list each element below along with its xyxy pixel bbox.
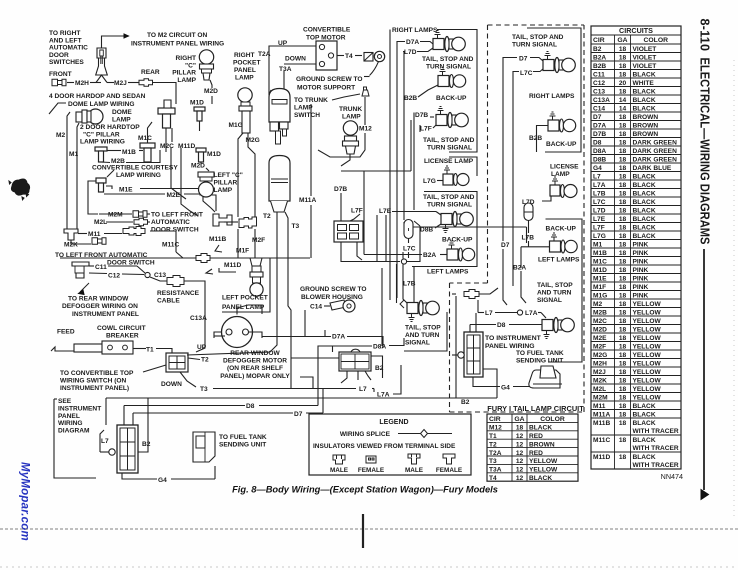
svg-text:18: 18: [619, 156, 627, 163]
svg-text:18: 18: [619, 71, 627, 78]
svg-text:G4: G4: [593, 165, 602, 172]
svg-text:M1C: M1C: [593, 258, 607, 265]
connector M2J: [139, 79, 153, 86]
svg-text:L7A: L7A: [525, 310, 538, 317]
wire M11D horizontal: [60, 257, 196, 259]
svg-text:BLACK: BLACK: [633, 233, 656, 240]
wire D7 fury: [503, 58, 517, 64]
svg-text:YELLOW: YELLOW: [633, 335, 662, 342]
svg-text:LICENSE LAMP: LICENSE LAMP: [424, 158, 474, 165]
svg-text:14: 14: [619, 105, 627, 112]
tail stop turn lamp fury bottom: [542, 320, 553, 331]
svg-text:DOOR SWITCH: DOOR SWITCH: [151, 226, 199, 233]
svg-text:L7C: L7C: [520, 70, 533, 77]
wire L7G: [437, 180, 443, 182]
wire G4: [122, 473, 157, 479]
tail stop turn lamp right 1: [433, 39, 444, 50]
svg-text:B2: B2: [461, 399, 470, 406]
svg-text:L7G: L7G: [423, 178, 436, 185]
wire C14 to motor: [237, 305, 262, 315]
back-up lamp fury 2: [550, 241, 561, 252]
svg-text:M11A: M11A: [299, 197, 316, 204]
svg-text:M11: M11: [593, 403, 606, 410]
svg-text:COLOR: COLOR: [643, 37, 668, 44]
svg-text:T2: T2: [201, 357, 209, 364]
svg-text:D7A: D7A: [593, 122, 606, 129]
svg-text:L7D: L7D: [404, 49, 417, 56]
svg-text:DEFOGGER MOTOR: DEFOGGER MOTOR: [223, 358, 287, 365]
svg-text:T3A: T3A: [279, 66, 292, 73]
svg-text:M2J: M2J: [593, 369, 606, 376]
wire L7A: [393, 365, 401, 394]
svg-text:M2: M2: [593, 301, 602, 308]
bracket fury bottom: [546, 219, 583, 362]
svg-text:M11D: M11D: [224, 262, 241, 269]
connector M11B: [213, 214, 232, 226]
svg-text:INSTRUMENT PANEL WIRING: INSTRUMENT PANEL WIRING: [131, 41, 224, 48]
svg-text:18: 18: [619, 403, 627, 410]
svg-text:WITH TRACER: WITH TRACER: [633, 462, 679, 469]
svg-text:AND TURN: AND TURN: [405, 332, 440, 339]
wire M2H-M2J: [67, 82, 74, 84]
svg-text:L7: L7: [101, 438, 109, 445]
svg-text:18: 18: [619, 224, 627, 231]
ground screw C14: [324, 305, 330, 307]
wire D8 long: [124, 405, 245, 407]
svg-text:D8A: D8A: [593, 148, 606, 155]
svg-text:SENDING UNIT: SENDING UNIT: [219, 442, 266, 449]
wire T1: [133, 348, 146, 350]
svg-text:M2: M2: [56, 132, 65, 139]
wire M2B: [126, 150, 160, 163]
fury inline connector: [464, 290, 479, 299]
wire to M2 circuit arrow: [102, 36, 125, 48]
wire M2C: [165, 128, 167, 152]
svg-text:M1G: M1G: [229, 122, 243, 129]
svg-text:B2B: B2B: [529, 135, 542, 142]
svg-text:BACK-UP: BACK-UP: [546, 141, 577, 148]
terminal L7: [109, 449, 115, 455]
svg-text:PINK: PINK: [633, 258, 649, 265]
svg-text:18: 18: [619, 207, 627, 214]
svg-text:YELLOW: YELLOW: [633, 352, 662, 359]
svg-text:18: 18: [619, 233, 627, 240]
svg-text:TO FUEL TANK: TO FUEL TANK: [516, 350, 564, 357]
wire B2B: [389, 30, 391, 301]
bottom rule: [0, 528, 738, 530]
svg-text:LAMP WIRING: LAMP WIRING: [116, 172, 161, 179]
svg-text:DARK BLUE: DARK BLUE: [633, 165, 672, 172]
svg-text:BACK-UP: BACK-UP: [442, 237, 473, 244]
svg-text:D7: D7: [501, 242, 510, 249]
svg-text:POCKET: POCKET: [233, 60, 260, 67]
wire M1G M2G: [238, 133, 243, 217]
wiring splice symbol: [398, 433, 452, 435]
wire trunk to left: [214, 335, 225, 337]
svg-text:B2B: B2B: [593, 63, 606, 70]
wire M1 vertical: [77, 123, 79, 229]
svg-text:LAMP: LAMP: [112, 117, 131, 124]
capsule L7D fury: [524, 203, 533, 221]
wire trunk b2: [371, 356, 383, 378]
svg-text:M1D: M1D: [190, 100, 204, 107]
svg-text:18: 18: [619, 258, 627, 265]
svg-text:TURN SIGNAL: TURN SIGNAL: [427, 145, 472, 152]
svg-text:BLACK: BLACK: [633, 97, 656, 104]
svg-text:GROUND SCREW TO: GROUND SCREW TO: [300, 286, 367, 293]
svg-text:PANEL: PANEL: [58, 413, 80, 420]
svg-text:18: 18: [619, 343, 627, 350]
svg-text:M11: M11: [88, 231, 101, 238]
wire L7 fury: [495, 312, 517, 314]
trunk lamp: [343, 121, 357, 135]
svg-text:D7B: D7B: [593, 131, 606, 138]
wire B2A: [364, 254, 422, 256]
bracket right lamps: [437, 30, 477, 153]
svg-text:M1B: M1B: [593, 250, 607, 257]
fury block terminal: [458, 352, 464, 358]
svg-text:TAIL, STOP AND: TAIL, STOP AND: [512, 34, 564, 41]
wire B2 fury bottom: [456, 397, 497, 399]
svg-text:D8A: D8A: [373, 344, 386, 351]
svg-text:PINK: PINK: [633, 284, 649, 291]
svg-text:18: 18: [619, 63, 627, 70]
svg-text:YELLOW: YELLOW: [633, 386, 662, 393]
svg-text:NN474: NN474: [661, 472, 683, 481]
wire L7D fury: [542, 196, 551, 201]
svg-text:18: 18: [619, 46, 627, 53]
svg-text:8-110: 8-110: [698, 19, 712, 52]
svg-text:BLACK: BLACK: [633, 105, 656, 112]
svg-text:YELLOW: YELLOW: [633, 369, 662, 376]
splice C13: [145, 272, 150, 277]
svg-text:RIGHT: RIGHT: [234, 52, 255, 59]
wire M2E: [104, 193, 165, 195]
wire T3A down to pump: [283, 71, 285, 89]
svg-text:18: 18: [619, 122, 627, 129]
svg-text:D8: D8: [593, 139, 602, 146]
svg-text:M11C: M11C: [593, 437, 610, 444]
splice L7C: [401, 259, 406, 264]
svg-text:DOOR: DOOR: [49, 52, 69, 59]
svg-text:18: 18: [619, 250, 627, 257]
wire B2B fury: [537, 126, 549, 153]
wire G4 fury: [473, 377, 500, 387]
legend female insulator 2: [443, 454, 455, 464]
wire courtesy pointer: [107, 170, 114, 177]
svg-text:LICENSE: LICENSE: [550, 164, 579, 171]
svg-text:M2J: M2J: [114, 80, 127, 87]
svg-text:L7C: L7C: [593, 199, 606, 206]
wire M1C up: [148, 122, 153, 143]
wire L7B to backup: [521, 246, 550, 248]
left c pillar lamp: [198, 172, 214, 177]
svg-text:RIGHT: RIGHT: [175, 55, 196, 62]
svg-text:BLACK: BLACK: [633, 173, 656, 180]
svg-text:CABLE: CABLE: [157, 298, 180, 305]
wire to resistance cable: [150, 277, 167, 281]
svg-text:M2F: M2F: [593, 343, 606, 350]
svg-text:D7A: D7A: [406, 39, 419, 46]
svg-text:GA: GA: [617, 37, 627, 44]
svg-text:BLACK: BLACK: [633, 190, 656, 197]
svg-text:PINK: PINK: [633, 292, 649, 299]
socket courtesy lamp: [96, 178, 106, 183]
svg-text:18: 18: [619, 411, 627, 418]
svg-text:M2C: M2C: [593, 318, 607, 325]
svg-text:CONVERTIBLE: CONVERTIBLE: [303, 27, 351, 34]
wire D7A mid: [262, 336, 331, 338]
svg-text:18: 18: [619, 326, 627, 333]
wire trunk lamp down: [341, 154, 350, 166]
svg-text:BLACK: BLACK: [633, 411, 656, 418]
svg-text:PANEL: PANEL: [234, 67, 256, 74]
svg-text:M2E: M2E: [593, 335, 607, 342]
svg-text:C11: C11: [95, 264, 107, 271]
bracket fury right lamps: [527, 28, 581, 152]
svg-text:YELLOW: YELLOW: [633, 343, 662, 350]
svg-text:18: 18: [619, 318, 627, 325]
svg-text:18: 18: [619, 216, 627, 223]
svg-text:MOTOR SUPPORT: MOTOR SUPPORT: [297, 85, 355, 92]
svg-text:LAMP: LAMP: [214, 187, 233, 194]
wire capsule down: [528, 221, 530, 234]
svg-text:18: 18: [619, 437, 627, 444]
resistance cable plug: [167, 276, 184, 287]
svg-text:WIRING SWITCH (ON: WIRING SWITCH (ON: [60, 378, 127, 385]
svg-text:18: 18: [619, 267, 627, 274]
svg-text:C11: C11: [593, 71, 605, 78]
svg-text:TO CONVERTIBLE TOP: TO CONVERTIBLE TOP: [60, 370, 134, 377]
svg-text:AUTOMATIC: AUTOMATIC: [49, 45, 88, 52]
wire D7B mid: [340, 193, 342, 221]
svg-text:PINK: PINK: [633, 267, 649, 274]
svg-text:T3: T3: [200, 386, 208, 393]
svg-text:LAMP: LAMP: [235, 75, 254, 82]
svg-text:PINK: PINK: [633, 241, 649, 248]
tail stop turn lamp fury 1: [543, 60, 554, 71]
svg-text:GROUND SCREW TO: GROUND SCREW TO: [296, 76, 363, 83]
svg-text:DARK GREEN: DARK GREEN: [633, 156, 678, 163]
wire L7A fury: [538, 312, 541, 314]
convertible top pump lower: [269, 156, 290, 202]
svg-text:D7B: D7B: [334, 186, 347, 193]
svg-text:L7B: L7B: [593, 190, 606, 197]
socket M1B: [95, 147, 107, 151]
svg-text:PANEL) MOPAR ONLY: PANEL) MOPAR ONLY: [220, 373, 290, 380]
wire defogger motor: [249, 332, 263, 338]
connector block T1 T2 up down: [166, 353, 188, 372]
MyMopar.com watermark: [19, 462, 31, 541]
svg-text:DARK GREEN: DARK GREEN: [633, 148, 678, 155]
svg-text:BLACK: BLACK: [633, 403, 656, 410]
svg-text:M2F: M2F: [252, 237, 265, 244]
svg-text:PINK: PINK: [633, 275, 649, 282]
svg-text:BLACK: BLACK: [633, 71, 656, 78]
svg-text:L7: L7: [593, 173, 601, 180]
svg-text:BLACK: BLACK: [633, 207, 656, 214]
svg-text:TO RIGHT: TO RIGHT: [49, 30, 80, 37]
svg-text:18: 18: [619, 394, 627, 401]
connector M11 inline: [123, 227, 145, 236]
svg-text:RIGHT LAMPS: RIGHT LAMPS: [392, 27, 438, 34]
svg-text:SIGNAL: SIGNAL: [405, 340, 430, 347]
svg-text:ELECTRICAL—WIRING DIAGRAMS: ELECTRICAL—WIRING DIAGRAMS: [698, 58, 712, 245]
wire M1E: [106, 186, 112, 189]
svg-text:DARK GREEN: DARK GREEN: [633, 139, 678, 146]
wire M12: [364, 97, 366, 125]
svg-text:TAIL, STOP: TAIL, STOP: [537, 282, 573, 289]
svg-text:TO INSTRUMENT: TO INSTRUMENT: [485, 335, 542, 342]
wire down T3A: [284, 63, 316, 65]
svg-text:REAR: REAR: [141, 69, 160, 76]
wire M2G long: [237, 229, 239, 258]
wire D8A: [333, 345, 373, 347]
svg-text:BACK-UP: BACK-UP: [546, 226, 577, 233]
connector block L7 B2: [117, 425, 138, 473]
svg-text:VIOLET: VIOLET: [633, 46, 657, 53]
wire trunk connector down: [341, 371, 347, 383]
svg-text:2 DOOR HARDTOP: 2 DOOR HARDTOP: [80, 124, 140, 131]
wire D7B: [413, 113, 415, 120]
socket M1D right: [194, 107, 205, 111]
wire L7C down: [408, 239, 410, 244]
wire left pocket lamp enclosure: [222, 258, 270, 312]
svg-text:18: 18: [619, 420, 627, 427]
svg-text:M11A: M11A: [593, 411, 610, 418]
splice L7A fury: [517, 310, 522, 315]
svg-text:4 DOOR HARDOP AND SEDAN: 4 DOOR HARDOP AND SEDAN: [49, 93, 146, 100]
ink blob stain: [9, 179, 30, 200]
connector L7C capsule: [403, 222, 405, 224]
svg-text:L7: L7: [359, 386, 367, 393]
wire M11: [78, 233, 87, 235]
tail stop turn lamp right 2: [436, 115, 447, 126]
svg-text:M1C: M1C: [138, 135, 152, 142]
four pin connector: [334, 221, 363, 242]
svg-text:18: 18: [619, 386, 627, 393]
connector M2M: [99, 213, 132, 215]
wire fury B2 left: [455, 296, 457, 398]
wire B2 row: [106, 397, 456, 399]
svg-text:M2K: M2K: [593, 377, 607, 384]
svg-text:WHITE: WHITE: [633, 80, 655, 87]
svg-text:M1G: M1G: [593, 292, 607, 299]
svg-text:M2D: M2D: [204, 88, 218, 95]
svg-text:B2: B2: [593, 46, 602, 53]
right pocket panel lamp: [238, 88, 252, 102]
arrow M11D: [206, 269, 213, 274]
svg-text:LAMP: LAMP: [177, 77, 196, 84]
svg-text:TAIL, STOP: TAIL, STOP: [405, 325, 441, 332]
wire L7 left: [100, 430, 104, 452]
wire M11D from socket: [171, 128, 173, 142]
svg-text:M1E: M1E: [119, 187, 133, 194]
svg-text:C12: C12: [593, 80, 605, 87]
trunk lamp switch bolt: [362, 87, 369, 96]
right page arrow: [701, 490, 709, 500]
svg-text:YELLOW: YELLOW: [633, 326, 662, 333]
back-up lamp fury 1: [548, 120, 559, 131]
svg-text:PANEL WIRING: PANEL WIRING: [485, 343, 535, 350]
svg-text:M1D: M1D: [593, 267, 607, 274]
arrow to rear window defogger: [80, 283, 89, 292]
svg-text:L7: L7: [485, 310, 493, 317]
svg-text:18: 18: [619, 377, 627, 384]
svg-text:AND TURN: AND TURN: [537, 290, 572, 297]
svg-text:BROWN: BROWN: [633, 131, 659, 138]
svg-text:INSTRUMENT PANEL: INSTRUMENT PANEL: [72, 311, 139, 318]
defogger switch C11 C12: [72, 262, 89, 278]
svg-text:18: 18: [619, 114, 627, 121]
svg-text:LEFT POCKET: LEFT POCKET: [222, 295, 268, 302]
svg-text:RIGHT LAMPS: RIGHT LAMPS: [529, 93, 575, 100]
svg-text:TURN SIGNAL: TURN SIGNAL: [426, 64, 471, 71]
svg-text:D7: D7: [294, 411, 303, 418]
svg-text:BROWN: BROWN: [633, 114, 659, 121]
wire C13A: [184, 281, 205, 352]
svg-text:"C" PILLAR: "C" PILLAR: [83, 131, 120, 138]
fuel tank sender left: [193, 432, 215, 462]
svg-text:LEFT LAMPS: LEFT LAMPS: [427, 269, 469, 276]
wire L7D: [403, 52, 404, 58]
svg-text:18: 18: [619, 165, 627, 172]
svg-text:BLACK: BLACK: [633, 216, 656, 223]
svg-text:REAR WINDOW: REAR WINDOW: [230, 350, 280, 357]
svg-text:SIGNAL: SIGNAL: [537, 297, 562, 304]
svg-text:M11D: M11D: [593, 454, 610, 461]
svg-text:BLACK: BLACK: [633, 420, 656, 427]
back-up lamp 2: [447, 249, 458, 260]
T connector M11: [64, 229, 78, 240]
svg-text:18: 18: [619, 292, 627, 299]
socket M1C: [140, 143, 155, 148]
wire T3 long: [213, 388, 356, 390]
svg-text:YELLOW: YELLOW: [633, 301, 662, 308]
svg-text:L7E: L7E: [379, 208, 392, 215]
svg-text:M2H: M2H: [593, 360, 607, 367]
license lamp center: [443, 174, 453, 185]
fuel tank sender fury: [529, 370, 560, 388]
svg-text:CIR: CIR: [593, 37, 605, 44]
svg-text:18: 18: [619, 139, 627, 146]
svg-text:L7F: L7F: [420, 126, 432, 133]
svg-text:18: 18: [619, 352, 627, 359]
svg-text:18: 18: [619, 88, 627, 95]
svg-text:18: 18: [619, 131, 627, 138]
svg-text:TO LEFT FRONT: TO LEFT FRONT: [151, 212, 203, 219]
svg-text:L7C: L7C: [403, 246, 416, 253]
svg-text:CIRCUITS: CIRCUITS: [619, 26, 653, 35]
svg-text:PINK: PINK: [633, 250, 649, 257]
wire D8 upturn: [318, 346, 333, 406]
svg-text:SENDING UNIT: SENDING UNIT: [516, 358, 563, 365]
wire M2D left: [200, 162, 202, 165]
svg-text:M1: M1: [593, 241, 602, 248]
bottom page edge noise: [0, 566, 738, 568]
svg-text:18: 18: [619, 182, 627, 189]
wire M11D staircase: [181, 148, 198, 216]
automatic door switch feed connector: [96, 48, 108, 75]
bracket dome lamp wiring: [49, 103, 66, 114]
connector M2H: [52, 79, 66, 85]
fury connector block: [464, 332, 483, 377]
wire D7A: [397, 42, 405, 47]
svg-text:M2C: M2C: [160, 143, 174, 150]
wire D8 fury: [470, 324, 496, 326]
svg-text:C13A: C13A: [190, 315, 207, 322]
svg-text:M11B: M11B: [593, 420, 610, 427]
